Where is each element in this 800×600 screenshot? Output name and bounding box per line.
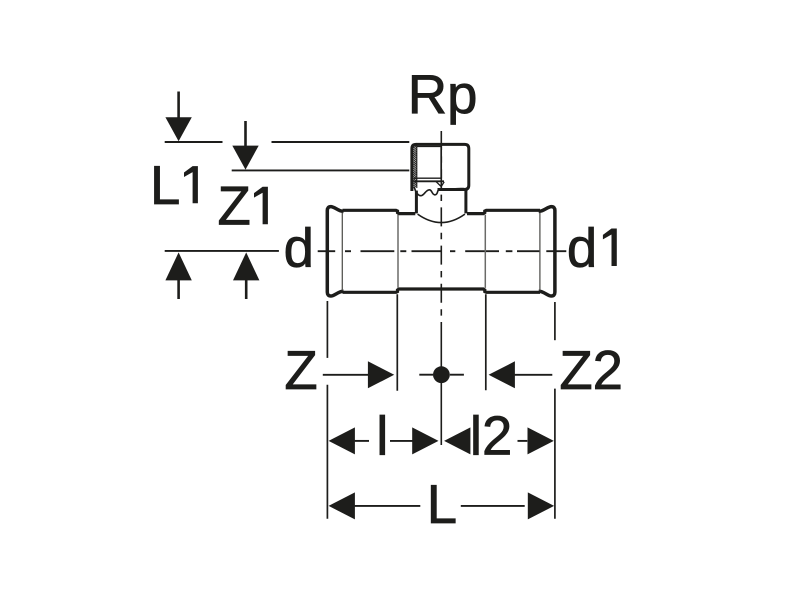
Z arrow [368, 361, 394, 388]
thread runout wedge [436, 182, 444, 187]
center dot left tick [419, 374, 433, 376]
svg-text:Z: Z [284, 340, 317, 401]
d1 tick over right bead [546, 250, 566, 252]
right bead extension line [554, 302, 556, 519]
l right arrow [412, 427, 438, 454]
left bead extension line [326, 301, 328, 519]
center dot right tick [450, 374, 464, 376]
bottom edge [343, 289, 541, 292]
svg-text:l: l [376, 406, 388, 467]
Z1 reference line [232, 169, 410, 171]
svg-text:Rp: Rp [408, 64, 478, 125]
svg-text:d: d [284, 218, 314, 279]
left socket top [343, 210, 416, 213]
break-out wavy line [414, 187, 468, 196]
l left arrow [329, 427, 355, 454]
Z1 bottom arrow [233, 252, 259, 299]
L1 top reference line [165, 141, 410, 143]
tee body outline [343, 210, 541, 292]
Rp threaded socket outline [412, 144, 469, 191]
l2 right arrow [528, 427, 554, 454]
right socket internal stop line [484, 215, 486, 288]
left stop extension line [396, 294, 398, 391]
saddle arc under branch [418, 214, 465, 222]
L dimension line right [461, 505, 525, 507]
branch neck right wall [464, 190, 467, 214]
right bead inner edge [539, 213, 541, 291]
centerline reference line (left) [165, 250, 279, 252]
L1 bottom arrow [165, 252, 191, 299]
center dot [433, 366, 450, 383]
svg-text:L: L [427, 474, 457, 535]
l dimension line left [355, 440, 369, 442]
svg-text:L: L [150, 155, 180, 216]
left press bead [327, 207, 343, 296]
svg-text:Z: Z [218, 175, 251, 236]
Z dimension line [323, 374, 369, 376]
svg-text:d: d [567, 218, 597, 279]
left bead inner edge [341, 213, 343, 291]
l2 left arrow [444, 427, 470, 454]
Z2 arrow [489, 361, 515, 388]
thread undercut line 1 [414, 177, 442, 179]
thread hatch band [413, 143, 417, 188]
L right arrow [528, 492, 554, 519]
l2 dimension line [518, 440, 528, 442]
thread bore top line [417, 145, 441, 147]
l dimension line right [390, 440, 413, 442]
L dimension line left [355, 505, 421, 507]
Z2 dimension line [515, 374, 553, 376]
thread undercut line 2 [414, 180, 445, 182]
branch neck left wall [415, 191, 418, 214]
L left arrow [329, 492, 355, 519]
pipe horizontal centerline (dash-dot) [318, 250, 540, 252]
branch vertical centerline (dash-dot) [440, 131, 442, 445]
body top right + right socket top [467, 210, 540, 213]
Z1 top arrow [232, 121, 258, 170]
svg-text:l2: l2 [470, 406, 512, 467]
svg-text:Z2: Z2 [559, 340, 623, 401]
left socket internal stop line [397, 215, 399, 288]
thread bore side line [440, 146, 442, 178]
L1 top arrow [165, 92, 191, 142]
right stop extension line [485, 294, 487, 390]
right press bead [539, 207, 555, 296]
